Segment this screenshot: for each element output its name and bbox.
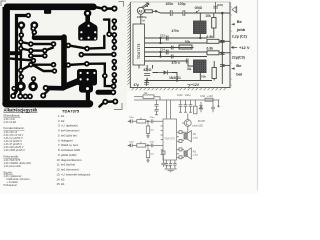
- trace P11 elbow up: [87, 36, 104, 49]
- wire R10 right: [154, 97, 160, 100]
- diagonal trace P10-P11: [68, 45, 87, 48]
- wire IC row2: [145, 42, 208, 44]
- wire R3 to supply: [219, 40, 230, 42]
- diode D2 vertical: [199, 102, 202, 113]
- capacitor C29: [151, 144, 160, 148]
- wire diode feed: [153, 73, 178, 81]
- svg-text:+12V: +12V: [191, 83, 200, 87]
- svg-text:470n: 470n: [150, 141, 156, 143]
- bridge block B: [194, 60, 207, 73]
- svg-text:+12 V: +12 V: [239, 45, 250, 50]
- capacitor C21: [154, 110, 158, 115]
- via dumbbell D2: [33, 25, 35, 32]
- heatsink pour body: [78, 22, 97, 41]
- svg-text:10k: 10k: [206, 14, 212, 18]
- svg-text:100µ: 100µ: [185, 93, 191, 97]
- IC U2 box: [163, 119, 177, 160]
- capacitor C7 plates: [220, 65, 225, 67]
- finger trace F1: [31, 43, 54, 45]
- capacitor C32: [169, 160, 172, 169]
- capacitor C27: [151, 119, 160, 123]
- svg-text:220n: 220n: [129, 117, 135, 119]
- svg-text:1N4001: 1N4001: [169, 76, 181, 80]
- speaker-out marker: [232, 6, 237, 13]
- svg-text:4: be4 (bemenet-): 4: be4 (bemenet-): [58, 129, 79, 133]
- input arrow row2: [128, 145, 130, 147]
- diagonal V2 to F2: [21, 49, 31, 51]
- wire J1 to R1: [143, 10, 146, 12]
- svg-text:1 db 1000 µF/25 V: 1 db 1000 µF/25 V: [4, 148, 26, 152]
- via dumbbell L1: [20, 77, 23, 87]
- pad above bus with stem: [32, 29, 34, 37]
- pad P3: [26, 13, 31, 18]
- wire blockB drop: [188, 61, 200, 81]
- capacitor C26: [131, 119, 137, 123]
- svg-text:jobb: jobb: [236, 27, 246, 32]
- capacitor C6: [213, 2, 218, 13]
- elbow trace to pad P15: [87, 64, 114, 87]
- pad P8 bottom row: [23, 94, 29, 100]
- capacitor C20: [154, 100, 158, 109]
- pad P2: [111, 6, 117, 12]
- wire rail to IC top b: [170, 100, 172, 119]
- capacitor C4: [170, 10, 172, 16]
- capacitor C15: [186, 59, 188, 64]
- parts list column: [4, 108, 38, 188]
- wire IC row1: [145, 37, 208, 39]
- node square S0: [162, 151, 165, 154]
- resistor R16 vertical: [147, 147, 149, 150]
- op IC U1 box: [133, 24, 145, 65]
- capacitor C12: [171, 55, 173, 59]
- crop mark bottom-right of PCB: [114, 103, 122, 110]
- right column dumbbell D: [113, 75, 115, 81]
- L trace to pad P16: [104, 20, 109, 34]
- via on elbow: [102, 73, 108, 79]
- GND stub arrow: [196, 10, 200, 13]
- crop mark top-right of PCB: [119, 2, 124, 7]
- trace F4 to lower right: [34, 65, 55, 71]
- pad P1: [101, 6, 107, 12]
- right column dumbbell B: [113, 35, 115, 48]
- input jack J1: [137, 7, 144, 14]
- right column dumbbell C: [113, 62, 115, 69]
- svg-text:100n: 100n: [166, 2, 174, 6]
- capacitor C33: [173, 160, 176, 169]
- diagonal V2 to F1: [21, 42, 31, 44]
- transistor feed wire: [182, 126, 188, 132]
- junction dots supply: [222, 41, 224, 43]
- resistor R2 vertical: [212, 18, 216, 29]
- svg-text:TDA7375: TDA7375: [164, 137, 175, 140]
- wire IC row6: [145, 60, 189, 62]
- svg-text:Kondenzátorok:: Kondenzátorok:: [4, 126, 25, 130]
- node square S1: [179, 131, 182, 134]
- wire P1-P2: [104, 7, 114, 10]
- capacitor C30: [161, 154, 165, 167]
- wire R2 drop: [213, 28, 215, 38]
- transistor Q1: [184, 120, 191, 127]
- resistor R4: [207, 51, 219, 55]
- svg-text:3A: 3A: [187, 67, 192, 71]
- node square S3: [179, 148, 182, 151]
- hatching right wall: [230, 6, 232, 86]
- resistor R13: [137, 120, 146, 123]
- svg-text:(C6): (C6): [217, 3, 223, 7]
- heatsink pour neck: [85, 13, 90, 22]
- capacitor C25: [211, 101, 215, 112]
- svg-text:C14: C14: [160, 48, 165, 52]
- node square S4: [179, 156, 182, 159]
- svg-text:100n: 100n: [177, 93, 183, 97]
- arrow +12V: [231, 46, 237, 48]
- svg-text:470µ: 470µ: [166, 165, 172, 167]
- capacitor C31: [165, 160, 168, 169]
- svg-text:Be: Be: [237, 19, 243, 24]
- junction row2: [147, 145, 148, 146]
- vertical link rows: [160, 38, 162, 57]
- bottom dumbbell P23-P24: [105, 100, 115, 103]
- resistor R12 vertical: [194, 106, 197, 114]
- inner corner trace: [14, 16, 28, 96]
- svg-text:C13: C13: [160, 34, 165, 38]
- svg-text:bal: bal: [236, 71, 242, 76]
- wire IC row5: [145, 56, 208, 58]
- power pour foot: [79, 84, 93, 93]
- capacitor C10 47u: [144, 81, 149, 86]
- svg-text:8: erősítéses GND: 8: erősítéses GND: [58, 148, 80, 152]
- power pour block: [77, 69, 97, 86]
- hatching bottom wall: [132, 88, 226, 90]
- resistor R3: [207, 39, 219, 43]
- wire rail to IC top a: [166, 100, 168, 119]
- svg-text:A3: A3: [138, 9, 142, 13]
- capacitor C3 plates: [220, 53, 225, 55]
- pad P7 bottom row: [17, 93, 23, 99]
- PCB top border trace: [7, 4, 94, 11]
- diagonal to pad P18: [43, 90, 49, 96]
- svg-text:Próbapanel: Próbapanel: [4, 183, 18, 187]
- svg-text:13: +U, készenlét bekapcsol.: 13: +U, készenlét bekapcsol.: [57, 172, 92, 176]
- finger trace F4: [31, 63, 54, 65]
- page right scan edge: [256, 0, 258, 190]
- svg-text:1 db piros LED: 1 db piros LED: [4, 164, 21, 168]
- capacitor C9: [144, 74, 150, 76]
- wire R6 stubs: [213, 61, 215, 81]
- node square S2: [179, 140, 182, 143]
- heatsink pour top pad: [84, 10, 92, 18]
- svg-text:5: be3 (jobb be): 5: be3 (jobb be): [58, 134, 77, 138]
- svg-text:470n: 470n: [150, 117, 156, 119]
- svg-text:100µ: 100µ: [178, 2, 186, 6]
- svg-text:Félvezetők:: Félvezetők:: [4, 154, 20, 158]
- svg-text:4Ω: 4Ω: [193, 151, 196, 154]
- svg-text:Ellenállások:: Ellenállások:: [4, 113, 21, 117]
- arrow Be bal: [231, 67, 234, 69]
- capacitor C23: [184, 100, 188, 112]
- hatching left wall: [127, 4, 130, 85]
- svg-text:820Ω: 820Ω: [144, 68, 152, 72]
- svg-text:3,5A: 3,5A: [200, 95, 205, 98]
- bus top bar: [34, 35, 64, 40]
- svg-text:12: be1 (bemenet ): 12: be1 (bemenet ): [57, 168, 80, 172]
- wire 12V arrow: [188, 84, 191, 87]
- PCB left border trace: [2, 7, 9, 104]
- schematic paper tint: [127, 0, 232, 91]
- svg-text:Be: Be: [236, 63, 242, 68]
- wire IC row3: [145, 47, 194, 49]
- svg-text:Egyéb:: Egyéb:: [4, 171, 14, 175]
- via dumbbell L2: [32, 79, 35, 87]
- input arrow: [142, 3, 150, 8]
- wire bottom bus: [145, 80, 213, 82]
- wire IC row4: [145, 51, 208, 53]
- svg-text:Alkatrészjegyzék: Alkatrészjegyzék: [4, 108, 38, 113]
- svg-text:TDA7375: TDA7375: [62, 109, 80, 114]
- ground bar under IC: [165, 169, 177, 172]
- wire from top border to pad P1: [96, 7, 104, 8]
- capacitor C14: [166, 50, 168, 55]
- svg-text:47µ: 47µ: [134, 83, 140, 87]
- PCB bottom border trace: [6, 100, 90, 107]
- svg-text:6.8k: 6.8k: [207, 35, 214, 39]
- resistor R6 vertical: [212, 68, 216, 79]
- resistor R14 vertical: [147, 121, 149, 126]
- via dumbbell D1: [20, 25, 22, 35]
- resistor R5: [179, 45, 192, 49]
- svg-text:ki: ki: [143, 18, 145, 22]
- capacitor C11: [171, 46, 173, 50]
- svg-text:470 n: 470 n: [172, 61, 180, 65]
- short bar trace with pad P22: [98, 90, 111, 95]
- svg-text:11: be2 (bal be): 11: be2 (bal be): [57, 163, 76, 167]
- long trace P12-P13: [81, 53, 114, 56]
- bridge block A: [194, 21, 207, 34]
- svg-text:2,2µ (C2): 2,2µ (C2): [232, 35, 248, 39]
- svg-text:15: ki4: 15: ki4: [57, 182, 65, 186]
- wire caps to border: [222, 64, 230, 66]
- resistor R10: [143, 95, 154, 99]
- solder tab under top border: [44, 9, 51, 14]
- svg-text:10: diagnosztikai kim.: 10: diagnosztikai kim.: [57, 158, 83, 162]
- IC right pin stubs: [177, 132, 180, 157]
- pad P8b bottom row: [27, 94, 33, 100]
- svg-text:TDA7375: TDA7375: [137, 43, 141, 59]
- wire row1: [146, 120, 151, 122]
- right column dumbbell A: [113, 21, 115, 28]
- svg-text:14: ki3: 14: ki3: [57, 177, 65, 181]
- power pour taper: [62, 78, 79, 91]
- svg-text:4-8Ω: 4-8Ω: [193, 155, 198, 157]
- svg-text:10k: 10k: [201, 74, 206, 78]
- svg-text:470n: 470n: [172, 29, 179, 33]
- IC left pin stubs: [161, 121, 163, 154]
- svg-text:2: ki2: 2: ki2: [58, 119, 65, 123]
- thick trace with pad P17: [46, 86, 63, 91]
- wire R1 to C4: [152, 11, 170, 13]
- svg-text:piros LED: piros LED: [193, 124, 204, 127]
- trace P14 to elbow: [68, 64, 87, 65]
- junction row1: [147, 121, 148, 122]
- wire blockA feed: [199, 13, 201, 38]
- wire C5 right: [185, 12, 230, 14]
- svg-text:9: jelföld (GND): 9: jelföld (GND): [58, 153, 77, 157]
- wire IC pins bottom: [139, 65, 153, 81]
- pad P4 bottom row: [10, 93, 16, 99]
- input arrow row1: [128, 121, 130, 123]
- arrow Be jobb: [231, 23, 234, 25]
- svg-text:3: +U, tápfeszült.: 3: +U, tápfeszült.: [58, 124, 78, 128]
- case top edge: [130, 1, 230, 3]
- diode D1: [158, 70, 172, 74]
- pad holes: [12, 7, 117, 103]
- resistor R11: [205, 98, 213, 101]
- capacitor C24: [189, 100, 193, 112]
- PCB paper tint: [0, 0, 127, 109]
- capacitor C22: [179, 100, 183, 112]
- pad P5: [18, 39, 23, 44]
- thick diagonal into pour: [62, 82, 78, 88]
- diagonal stub to pad P9: [10, 59, 33, 61]
- svg-text:+12V: +12V: [207, 95, 213, 98]
- resistor R1: [145, 10, 152, 13]
- capacitor C28: [131, 144, 137, 148]
- junction dots rows: [160, 37, 161, 38]
- svg-text:10k: 10k: [185, 40, 191, 44]
- speaker SP1: [184, 134, 187, 139]
- capacitor C2 plates: [220, 41, 225, 43]
- pinout column: [57, 109, 92, 187]
- bus vertical bar: [61, 37, 67, 86]
- svg-text:1: ki1: 1: ki1: [58, 114, 65, 118]
- svg-text:BC337: BC337: [198, 120, 206, 123]
- stub from left border: [10, 51, 21, 55]
- svg-text:4-8Ω: 4-8Ω: [193, 137, 198, 139]
- svg-text:4Ω: 4Ω: [193, 133, 196, 136]
- capacitor C13: [166, 36, 168, 41]
- wire R4 to supply: [219, 52, 230, 54]
- svg-text:220n: 220n: [129, 141, 135, 143]
- svg-text:22µ(C3): 22µ(C3): [232, 56, 246, 60]
- svg-text:2 db 10 kΩ: 2 db 10 kΩ: [4, 120, 17, 124]
- lower schematic supply rail: [134, 99, 220, 101]
- vertical trace V2: [19, 36, 22, 95]
- supply vertical wire: [221, 13, 223, 84]
- finger trace F3: [31, 55, 45, 57]
- svg-text:6.8k: 6.8k: [207, 46, 214, 50]
- pad P25 with diagonal to F4: [21, 65, 31, 70]
- dumbbell tail wire: [100, 103, 104, 107]
- svg-text:GND: GND: [195, 6, 203, 10]
- speaker SP2: [184, 151, 187, 156]
- power pour stem: [86, 93, 90, 101]
- finger trace F2: [31, 49, 45, 51]
- svg-text:6: hidegpont: 6: hidegpont: [58, 138, 73, 142]
- crop mark top-left: [1, 1, 6, 6]
- pad P19: [11, 86, 16, 91]
- resistor R15: [137, 144, 146, 147]
- wire to R10: [134, 96, 143, 98]
- amplifier case frame: [130, 2, 230, 88]
- capacitor C5: [183, 10, 185, 16]
- wire J1 to IC: [140, 14, 142, 24]
- pad P6: [18, 46, 23, 51]
- wire C4 to C5: [172, 12, 183, 14]
- svg-text:1k: 1k: [145, 4, 149, 8]
- wire row2: [146, 144, 151, 146]
- svg-text:7: földelt ny. bem.: 7: földelt ny. bem.: [58, 143, 79, 147]
